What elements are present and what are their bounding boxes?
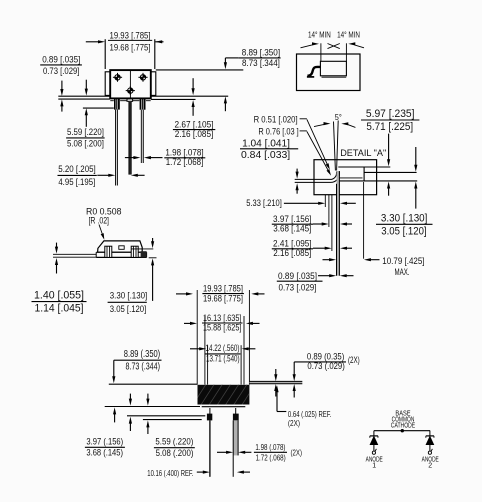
svg-text:2.67 [.105]: 2.67 [.105]	[174, 119, 213, 129]
svg-text:13.71 (.540): 13.71 (.540)	[206, 354, 240, 364]
svg-text:3.68 [.145]: 3.68 [.145]	[273, 224, 311, 234]
svg-text:5°: 5°	[335, 113, 342, 122]
svg-text:19.68 [.775]: 19.68 [.775]	[203, 293, 243, 303]
svg-text:(2X): (2X)	[288, 419, 300, 428]
svg-text:3.05 [.120]: 3.05 [.120]	[381, 226, 426, 238]
svg-text:3.68 (.145): 3.68 (.145)	[86, 448, 123, 458]
svg-text:5.20 [.205]: 5.20 [.205]	[58, 164, 95, 174]
svg-text:0.73 [.029]: 0.73 [.029]	[279, 282, 317, 292]
svg-text:1.04 [.041]: 1.04 [.041]	[242, 139, 290, 150]
svg-text:3.30 [.130]: 3.30 [.130]	[110, 291, 148, 301]
svg-text:5.97 [.235]: 5.97 [.235]	[366, 108, 415, 120]
svg-text:3.30 [.130]: 3.30 [.130]	[381, 213, 428, 225]
svg-text:0.89 [.035]: 0.89 [.035]	[42, 55, 80, 65]
svg-text:R 0.76 [.03 ]: R 0.76 [.03 ]	[258, 127, 298, 137]
svg-text:1: 1	[372, 463, 376, 470]
svg-text:1.40 [.055]: 1.40 [.055]	[34, 289, 84, 301]
svg-text:1.72 [.068]: 1.72 [.068]	[166, 157, 204, 167]
svg-text:8.73 (.344): 8.73 (.344)	[126, 361, 161, 372]
svg-text:1.72 (.068): 1.72 (.068)	[256, 454, 286, 463]
svg-text:5.08 [.200]: 5.08 [.200]	[67, 138, 104, 148]
svg-text:5.59 [.220]: 5.59 [.220]	[67, 127, 104, 137]
svg-text:5.71 [.225]: 5.71 [.225]	[366, 121, 413, 133]
svg-text:8.73 [.344]: 8.73 [.344]	[242, 58, 280, 68]
svg-text:3.05 [.120]: 3.05 [.120]	[110, 304, 147, 314]
svg-text:8.89 [.350]: 8.89 [.350]	[242, 47, 280, 57]
svg-text:10.16 (.400) REF.: 10.16 (.400) REF.	[147, 469, 193, 478]
svg-text:5.59 (.220): 5.59 (.220)	[155, 437, 193, 447]
svg-text:19.68 [.775]: 19.68 [.775]	[110, 42, 151, 52]
svg-text:0.89 [.035]: 0.89 [.035]	[278, 271, 317, 281]
svg-text:0.64 (.025) REF.: 0.64 (.025) REF.	[288, 410, 332, 419]
svg-text:19.93 [.785]: 19.93 [.785]	[203, 284, 243, 294]
svg-text:16.13 [.635]: 16.13 [.635]	[203, 313, 242, 323]
svg-text:2.16 [.085]: 2.16 [.085]	[273, 248, 311, 258]
svg-text:[R .02]: [R .02]	[89, 215, 110, 225]
svg-text:14° MIN: 14° MIN	[337, 29, 360, 39]
svg-text:4.95 [.195]: 4.95 [.195]	[58, 177, 95, 187]
svg-text:5.33 [.210]: 5.33 [.210]	[246, 198, 281, 208]
svg-text:MAX.: MAX.	[395, 267, 410, 277]
svg-text:14° MIN: 14° MIN	[308, 29, 331, 39]
svg-text:5.08 (.200): 5.08 (.200)	[156, 448, 194, 458]
svg-text:0.84 [.033]: 0.84 [.033]	[241, 150, 290, 161]
svg-text:1.14 [.045]: 1.14 [.045]	[35, 303, 84, 315]
svg-text:2.16 [.085]: 2.16 [.085]	[175, 129, 214, 139]
svg-text:3.97 (.156): 3.97 (.156)	[86, 437, 123, 447]
svg-text:8.89 (.350): 8.89 (.350)	[124, 349, 160, 360]
svg-text:10.79 [.425]: 10.79 [.425]	[382, 256, 424, 266]
svg-text:0.89 (0.35): 0.89 (0.35)	[307, 351, 344, 361]
svg-text:1.98 (.078): 1.98 (.078)	[255, 443, 285, 452]
svg-text:DETAIL "A": DETAIL "A"	[340, 148, 386, 159]
svg-text:R 0.51 [.020]: R 0.51 [.020]	[254, 115, 298, 125]
svg-text:14.22 (.560): 14.22 (.560)	[206, 343, 240, 353]
svg-text:(2X): (2X)	[291, 448, 303, 457]
svg-text:(2X): (2X)	[348, 355, 360, 365]
svg-text:3.97 [.156]: 3.97 [.156]	[273, 214, 312, 224]
svg-text:0.73 [.029]: 0.73 [.029]	[43, 66, 79, 76]
svg-text:1.98 [.078]: 1.98 [.078]	[165, 148, 203, 158]
svg-text:15.88 [.625]: 15.88 [.625]	[203, 323, 242, 333]
svg-text:2: 2	[428, 463, 432, 470]
svg-text:2.41 [.095]: 2.41 [.095]	[273, 239, 312, 249]
svg-text:CATHODE: CATHODE	[391, 423, 416, 430]
svg-text:19.93 [.785]: 19.93 [.785]	[110, 30, 151, 40]
svg-text:0.73 (.029): 0.73 (.029)	[307, 361, 344, 371]
